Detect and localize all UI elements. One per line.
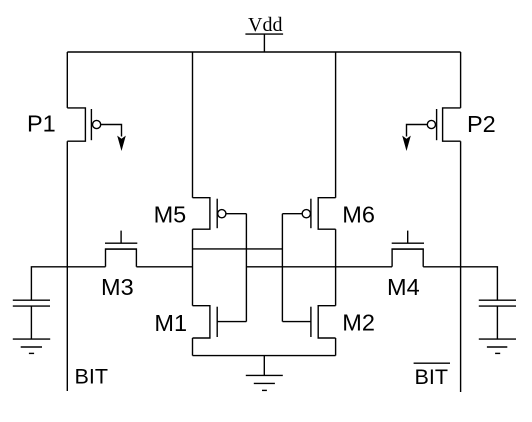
wire left column from top rail to P1 source — [66, 52, 68, 108]
wire left main (BIT to M3) — [31, 267, 105, 300]
capacitor right — [479, 300, 516, 339]
svg-text:P2: P2 — [467, 111, 496, 137]
ground right — [479, 339, 516, 353]
wire BIT column (P1 drain down to bottom) — [66, 141, 68, 391]
svg-text:M4: M4 — [387, 274, 420, 300]
wire right node column top (top rail to M6) — [335, 52, 337, 198]
wire cross-couple vertical left (M5/M1 gates) — [245, 214, 247, 322]
wire left node column top (top rail to M5) — [192, 52, 194, 198]
svg-text:BIT: BIT — [415, 365, 448, 389]
wire top rail — [67, 51, 460, 53]
transistor P2 — [402, 108, 460, 151]
wire right main (cross gates to M4) — [246, 266, 392, 268]
transistor P1 — [67, 108, 126, 151]
wire M4 to right cap — [423, 267, 497, 300]
svg-text:P1: P1 — [27, 110, 56, 136]
wire left node column middle (M5 drain to M1 drain) — [192, 229, 194, 306]
ground left — [13, 339, 50, 353]
svg-text:M1: M1 — [154, 310, 187, 336]
transistor M2 — [283, 306, 336, 338]
transistor M6 — [282, 198, 335, 230]
wire right node column middle (M6 drain to M2 drain) — [335, 229, 337, 306]
transistor M4 — [392, 231, 424, 267]
wire M1 source to bottom rail — [192, 338, 194, 356]
wire M2 source to bottom rail — [335, 338, 337, 356]
svg-text:M3: M3 — [101, 274, 134, 300]
node Vdd — [245, 14, 283, 52]
transistor M1 — [193, 306, 247, 338]
svg-text:M2: M2 — [342, 309, 375, 335]
ground center — [246, 356, 283, 391]
wire upper cross (left node to right gate) — [193, 248, 283, 250]
svg-text:BIT: BIT — [75, 365, 108, 389]
wire BITbar column (P2 drain down to bottom) — [460, 141, 462, 392]
svg-text:M6: M6 — [342, 202, 375, 228]
capacitor left — [13, 300, 50, 339]
label BITbar with overline — [414, 363, 450, 389]
transistor M3 — [105, 231, 137, 267]
wire M3 to left node — [136, 266, 192, 268]
transistor M5 — [193, 198, 247, 230]
svg-text:M5: M5 — [154, 202, 187, 228]
wire cross-couple vertical right (M6/M2 gates) — [281, 214, 283, 322]
wire right column from top rail to P2 source — [460, 52, 462, 108]
svg-text:Vdd: Vdd — [248, 14, 282, 36]
wire bottom rail — [193, 355, 336, 357]
